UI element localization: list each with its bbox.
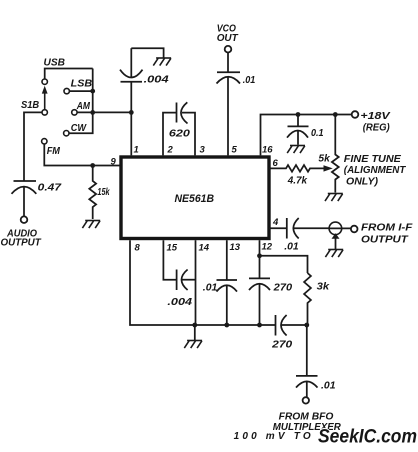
potentiometer 5k FINE TUNE: [318, 115, 338, 193]
switch contact AM: [72, 100, 90, 115]
svg-text:(REG): (REG): [363, 122, 391, 133]
node bus-3k junction: [304, 323, 309, 328]
VCO OUT terminal: [217, 23, 239, 53]
ground for 15k: [82, 221, 100, 229]
capacitor 270 bottom: [271, 315, 307, 351]
capacitor .004 top: [120, 48, 169, 155]
resistor R 4.7k: [269, 165, 324, 186]
wire pin 12 down: [259, 240, 261, 256]
ground on bus: [194, 325, 196, 340]
svg-text:3: 3: [200, 145, 206, 156]
resistor R 3k: [304, 273, 330, 325]
wire USB contact to top rail: [45, 69, 93, 80]
svg-text:15: 15: [167, 243, 178, 254]
wire AM to pin1 line: [77, 111, 131, 113]
capacitor 0.1: [287, 115, 324, 145]
capacitor .01 bottom: [296, 325, 336, 397]
svg-text:620: 620: [169, 128, 190, 140]
svg-text:270: 270: [271, 339, 292, 351]
svg-text:13: 13: [230, 242, 241, 253]
svg-text:LSB: LSB: [71, 77, 93, 89]
node bus junction pin 14: [192, 323, 197, 328]
wiper arrow into pot: [324, 165, 333, 171]
svg-text:.01: .01: [203, 281, 218, 293]
svg-text:OUT: OUT: [217, 32, 239, 44]
wire FM to pin 9: [44, 144, 119, 166]
svg-text:OUTPUT: OUTPUT: [361, 234, 409, 245]
switch contact FM: [42, 139, 61, 157]
capacitor C 620 between pins 2 and 3: [163, 102, 195, 155]
switch contact CW: [64, 122, 87, 136]
svg-text:16: 16: [262, 145, 273, 156]
svg-text:0.1: 0.1: [311, 127, 324, 139]
svg-text:AM: AM: [76, 100, 90, 112]
switch wiper arrow: [42, 86, 48, 110]
svg-text:0.47: 0.47: [38, 182, 63, 194]
node AM to pin 1 line junction: [129, 110, 134, 115]
svg-text:5k: 5k: [318, 153, 331, 165]
svg-text:6: 6: [273, 158, 279, 169]
node pot top junction: [333, 112, 338, 117]
FROM BFO terminal: [234, 397, 342, 442]
FROM I-F terminal: [351, 223, 413, 246]
svg-text:FM: FM: [47, 145, 61, 157]
svg-text:USB: USB: [44, 56, 66, 68]
capacitor 0.47: [12, 181, 63, 216]
ground for 0.1: [287, 146, 305, 154]
node 0.1 cap junction: [296, 112, 301, 117]
svg-text:NE561B: NE561B: [175, 193, 215, 205]
wire pin 16 to +18V rail: [261, 115, 352, 156]
+18V terminal: [352, 110, 391, 133]
wire pin 12 node to 3k: [260, 256, 308, 273]
svg-text:.01: .01: [284, 240, 299, 252]
svg-text:5: 5: [232, 145, 238, 156]
svg-text:4.7k: 4.7k: [287, 174, 308, 186]
svg-text:ONLY): ONLY): [346, 176, 379, 187]
wire pin 8 down to ground bus: [130, 240, 276, 325]
svg-text:(ALIGNMENT: (ALIGNMENT: [344, 165, 406, 176]
svg-text:8: 8: [135, 243, 141, 254]
svg-text:9: 9: [111, 157, 117, 168]
switch contact LSB: [64, 77, 93, 93]
svg-text:.01: .01: [321, 380, 336, 392]
svg-text:270: 270: [273, 281, 293, 293]
node LSB junction: [90, 89, 95, 94]
ground for 5k pot: [325, 194, 343, 202]
svg-text:4: 4: [272, 217, 279, 228]
ground top: [153, 58, 171, 66]
svg-text:FINE TUNE: FINE TUNE: [344, 154, 401, 165]
op-amp U1 NE561B IC body: [121, 157, 269, 239]
phono jack FROM I-F: [329, 222, 351, 249]
wire LSB to rail: [69, 90, 92, 92]
node AM junction: [90, 110, 95, 115]
svg-text:FROM I-F: FROM I-F: [361, 223, 413, 234]
labels FINE TUNE: [344, 154, 406, 188]
capacitor .01 pin 4: [269, 218, 329, 252]
switch contact USB: [42, 56, 65, 84]
switch S1B common contact: [21, 99, 47, 115]
node pin 12 junction: [257, 253, 262, 258]
svg-text:.004: .004: [167, 296, 192, 308]
svg-text:OUTPUT: OUTPUT: [1, 237, 42, 248]
svg-text:100 mV TO: 100 mV TO: [234, 431, 311, 442]
node 15k junction: [90, 163, 95, 168]
wire S1B common to left branch: [24, 112, 42, 181]
capacitor .004 pins 15-14: [163, 240, 195, 308]
svg-text:1: 1: [134, 145, 139, 156]
AUDIO OUTPUT terminal: [1, 216, 42, 248]
svg-text:FROM BFO: FROM BFO: [279, 412, 334, 423]
svg-text:S1B: S1B: [21, 99, 40, 111]
svg-text:SeekIC.com: SeekIC.com: [318, 427, 417, 448]
capacitor 270 pin 12: [249, 256, 292, 325]
node bus junction pin 12: [257, 323, 262, 328]
node bus junction pin 13: [224, 323, 229, 328]
svg-text:3k: 3k: [317, 281, 331, 293]
svg-text:2: 2: [167, 145, 174, 156]
wire pin 14 down to bus: [195, 240, 197, 325]
ground for jack: [325, 250, 343, 258]
capacitor .01 VCO: [217, 53, 256, 156]
wire .004 to top ground: [131, 48, 163, 57]
svg-text:15k: 15k: [97, 186, 110, 198]
resistor R 15k: [89, 166, 110, 220]
svg-text:+18V: +18V: [360, 110, 390, 122]
svg-text:.004: .004: [144, 73, 169, 85]
svg-text:.01: .01: [243, 74, 256, 86]
wire right vertical rail of switch: [69, 69, 93, 134]
svg-text:12: 12: [262, 242, 273, 253]
svg-text:14: 14: [199, 243, 210, 254]
capacitor .01 pin 13: [203, 240, 237, 325]
